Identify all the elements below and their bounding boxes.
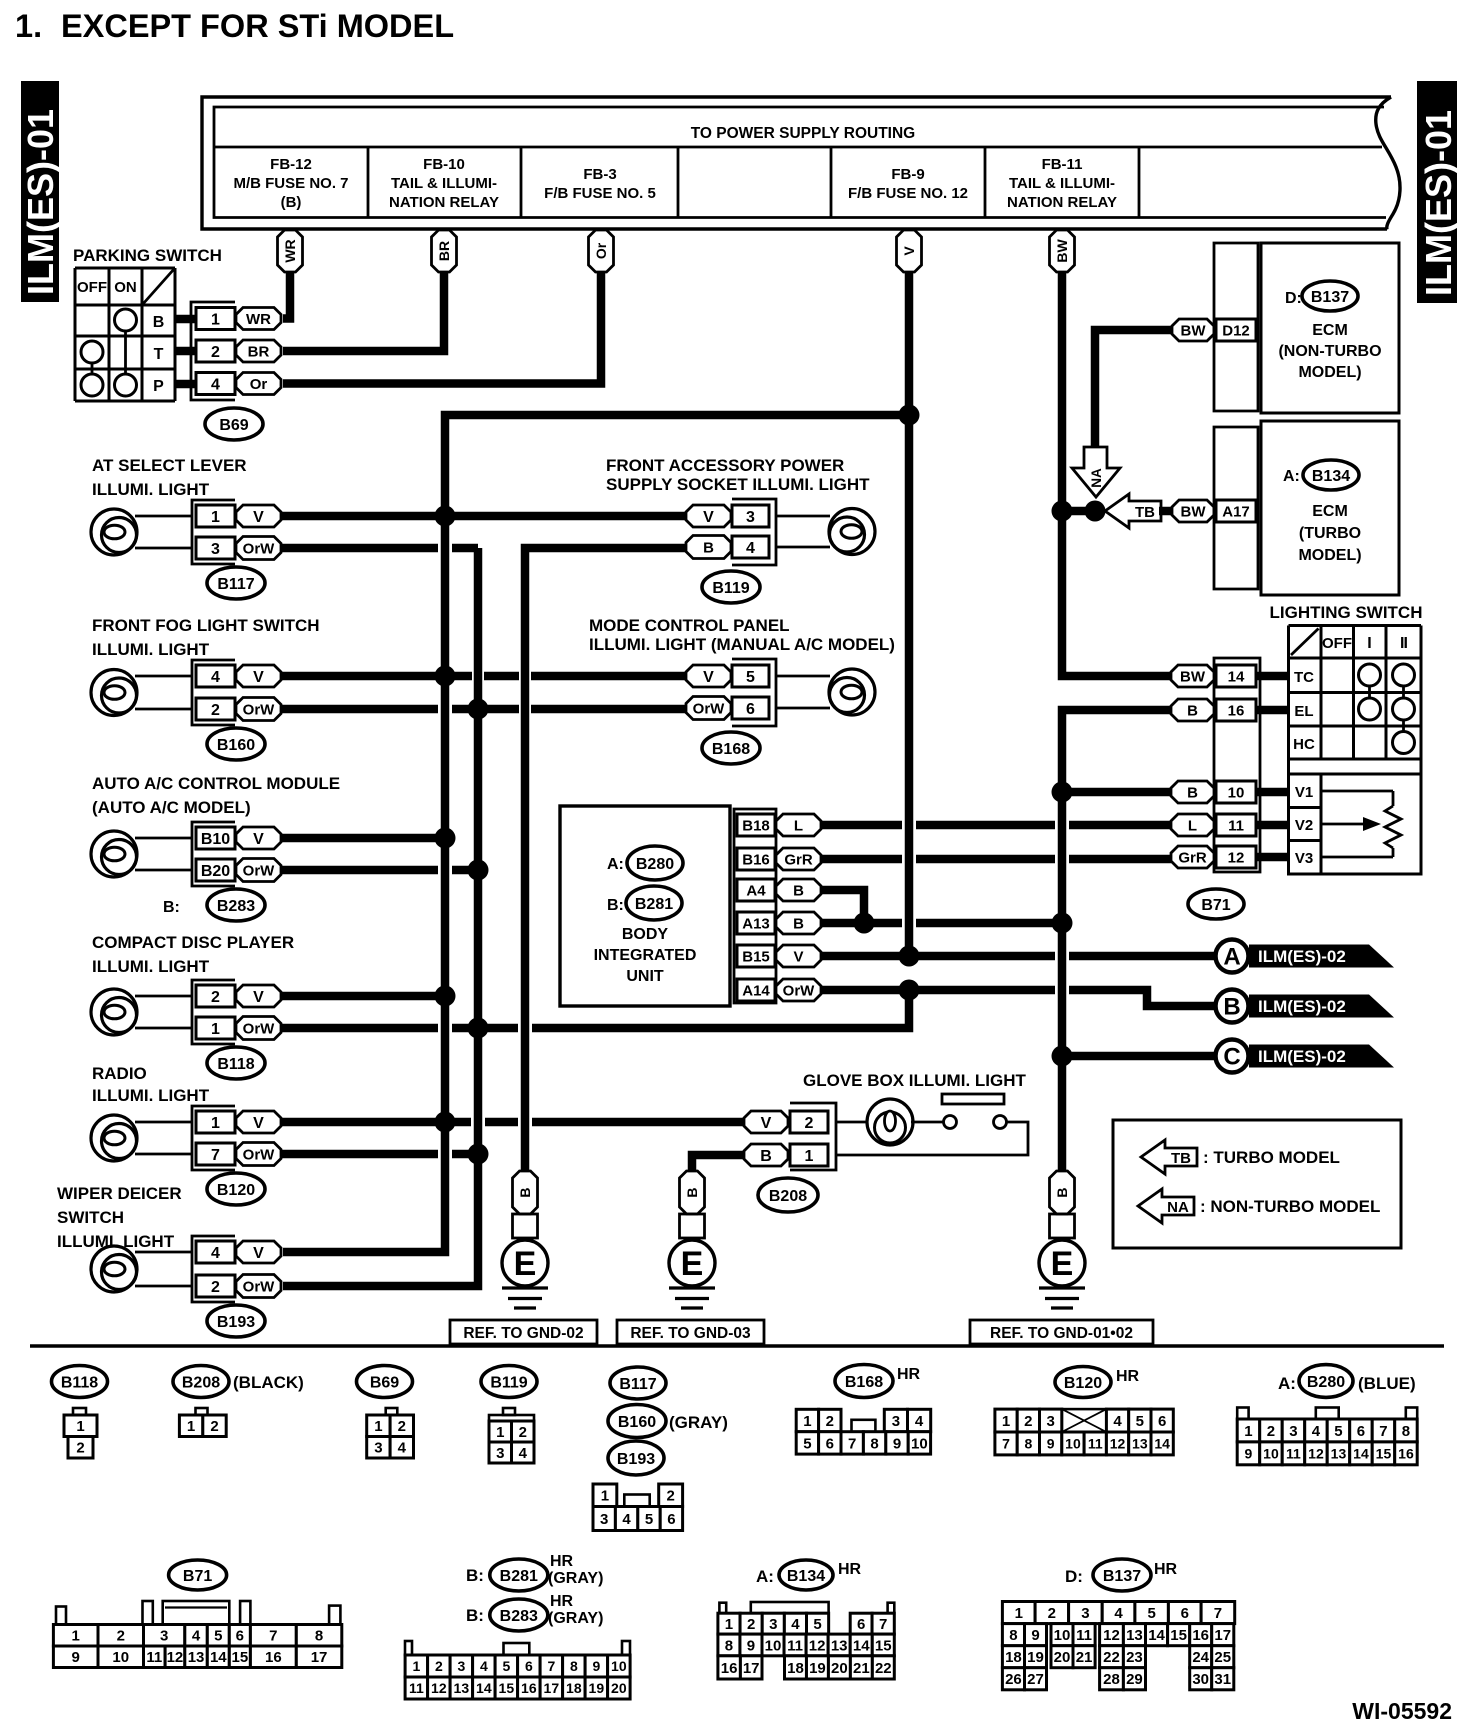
pin 2 cell of glove box: [790, 1111, 828, 1133]
pin B15 cell of BIU: [737, 945, 775, 967]
junction dot at (478,1028): [468, 1018, 489, 1039]
svg-text:ILM(ES)-02: ILM(ES)-02: [1258, 997, 1346, 1016]
svg-text:V: V: [793, 948, 803, 965]
wire label OrW at pin A14: [776, 979, 821, 1001]
svg-text:B280: B280: [636, 856, 674, 873]
connector oval B119: [702, 571, 760, 603]
svg-text:13: 13: [1126, 1627, 1143, 1644]
svg-text:1: 1: [211, 311, 220, 328]
svg-text:11: 11: [409, 1680, 424, 1696]
svg-text:COMPACT DISC PLAYER: COMPACT DISC PLAYER: [92, 933, 294, 952]
glove box connector bracket: [790, 1103, 836, 1170]
pin 2 cell of COMPACT DISC PLAYER ILLUMI. LIGHT: [196, 985, 235, 1007]
svg-text:B283: B283: [217, 898, 255, 915]
svg-text:AUTO A/C CONTROL MODULE: AUTO A/C CONTROL MODULE: [92, 774, 340, 793]
svg-text:4: 4: [519, 1445, 528, 1462]
svg-text:4: 4: [480, 1658, 488, 1674]
wire label BW at D12: [1172, 319, 1214, 341]
svg-text:5: 5: [803, 1435, 811, 1452]
connector oval B280 (bottom): [1299, 1365, 1353, 1398]
connector arrow A to ILM(ES)-02: [1216, 940, 1249, 973]
svg-text:11: 11: [1076, 1627, 1092, 1644]
svg-text:31: 31: [1214, 1671, 1231, 1688]
legend box turbo / non-turbo: [1113, 1120, 1401, 1248]
wire BR from fuse box to parking switch connector: [283, 268, 444, 351]
svg-text:4: 4: [622, 1511, 631, 1528]
stub BR under fuse box: [432, 230, 457, 272]
wire label L at pin B18: [776, 814, 821, 836]
svg-text:4: 4: [211, 1245, 220, 1262]
svg-text:11: 11: [1286, 1445, 1301, 1461]
svg-text:E: E: [514, 1245, 537, 1283]
wire stub pin 10 to lighting switch: [1256, 788, 1288, 797]
svg-text:14: 14: [853, 1637, 870, 1654]
svg-text:B: B: [760, 1148, 772, 1165]
svg-text:7: 7: [1002, 1435, 1010, 1451]
svg-text:I: I: [1367, 635, 1371, 652]
svg-text:6: 6: [1158, 1413, 1166, 1430]
svg-text:10: 10: [1263, 1445, 1279, 1461]
svg-text:WR: WR: [282, 239, 298, 262]
svg-text:B168: B168: [845, 1374, 883, 1391]
svg-text:10: 10: [1065, 1435, 1081, 1451]
connector oval B168: [702, 732, 760, 764]
svg-text:UNIT: UNIT: [626, 968, 664, 985]
svg-text:19: 19: [1027, 1649, 1044, 1666]
svg-text:22: 22: [875, 1660, 892, 1677]
svg-text:(GRAY): (GRAY): [548, 1570, 603, 1587]
TB arrow pointing left: [1105, 494, 1161, 528]
svg-text:REF. TO GND-03: REF. TO GND-03: [630, 1325, 751, 1342]
svg-text:LIGHTING SWITCH: LIGHTING SWITCH: [1270, 603, 1423, 622]
svg-text:1: 1: [211, 509, 220, 526]
svg-text:6: 6: [667, 1511, 675, 1528]
wire label B at pin A4: [776, 879, 821, 901]
svg-text:TAIL & ILLUMI-: TAIL & ILLUMI-: [391, 175, 497, 192]
NA arrow pointing down to turbo/non-turbo split: [1072, 447, 1120, 497]
stub V under fuse box: [897, 230, 922, 272]
svg-text:5: 5: [1136, 1413, 1144, 1430]
connector oval B280: [627, 846, 683, 880]
connector B69 bracket: [191, 302, 235, 400]
svg-text:1: 1: [1244, 1423, 1252, 1440]
svg-text:B:: B:: [163, 899, 180, 916]
svg-text:5: 5: [1147, 1605, 1155, 1622]
wire label B of glove box: [744, 1144, 788, 1166]
svg-text:FRONT FOG LIGHT SWITCH: FRONT FOG LIGHT SWITCH: [92, 616, 320, 635]
svg-text:B137: B137: [1103, 1568, 1141, 1585]
connector oval B117 (bottom): [610, 1367, 666, 1399]
pin A13 cell of BIU: [737, 912, 775, 934]
wire V row RADIO to GLOVE BOX: [281, 1118, 471, 1127]
svg-text:B10: B10: [201, 831, 230, 848]
svg-text:4: 4: [211, 669, 220, 686]
junction dot at (478,1154): [468, 1144, 489, 1165]
lighting switch contact grid: [1289, 624, 1422, 627]
svg-text:BW: BW: [1181, 322, 1207, 339]
svg-text:Or: Or: [250, 376, 268, 393]
connector oval B69 (bottom): [357, 1366, 413, 1398]
pin B18 cell of BIU: [737, 814, 775, 836]
pin 1 cell of B69: [196, 308, 235, 330]
svg-text:28: 28: [1103, 1671, 1120, 1688]
svg-text:16: 16: [1228, 702, 1245, 719]
svg-text:OrW: OrW: [243, 862, 276, 879]
pin 4 cell of B69: [196, 373, 235, 395]
wire label L at pin 11: [1171, 814, 1214, 836]
svg-text:4: 4: [192, 1628, 201, 1645]
svg-text:3: 3: [600, 1511, 608, 1528]
stub WR under fuse box: [278, 230, 303, 272]
link line OFF column: [91, 363, 94, 374]
connector oval B208: [758, 1178, 818, 1212]
svg-text:HR: HR: [1154, 1561, 1178, 1578]
svg-text:HR: HR: [897, 1366, 921, 1383]
wire OrW row FRONT FOG to MODE CONTROL: [281, 705, 438, 714]
svg-text:1: 1: [211, 1021, 220, 1038]
svg-text:B134: B134: [1312, 468, 1350, 485]
svg-text:B134: B134: [787, 1568, 825, 1585]
svg-text:3: 3: [1289, 1423, 1297, 1440]
pin 7 cell of RADIO ILLUMI. LIGHT: [196, 1143, 235, 1165]
wire color label OrW of WIPER DEICER SWITCH ILLUMI. LIGHT: [236, 1275, 281, 1298]
svg-text:(AUTO A/C MODEL): (AUTO A/C MODEL): [92, 798, 251, 817]
svg-text:OrW: OrW: [243, 540, 276, 557]
junction dot at (478,709): [468, 699, 489, 720]
pin 4 cell of FRONT ACCESSORY POWER SUPPLY SOCKET ILLUMI. LIGHT: [732, 536, 769, 558]
svg-text:B208: B208: [769, 1188, 807, 1205]
svg-text:OrW: OrW: [243, 701, 276, 718]
wire label WR of B69: [236, 308, 281, 330]
REF. TO GND-01/02 box: [970, 1320, 1153, 1344]
svg-text:7: 7: [211, 1147, 220, 1164]
wire parking switch P to pin 4: [175, 380, 198, 389]
svg-text:11: 11: [1088, 1435, 1103, 1451]
svg-text:A:: A:: [1278, 1374, 1296, 1393]
svg-text:B18: B18: [742, 817, 770, 834]
svg-text:15: 15: [1170, 1627, 1187, 1644]
svg-text:A:: A:: [756, 1567, 774, 1586]
connector bracket of MODE CONTROL PANEL ILLUMI. LIGHT: [732, 659, 776, 726]
wire stub pin 16 to lighting switch: [1256, 706, 1288, 715]
connector oval B71 (bottom): [169, 1560, 227, 1590]
connector bracket of FRONT ACCESSORY POWER SUPPLY SOCKET ILLUMI. LIGHT: [732, 499, 776, 565]
connector oval B168 (bottom): [835, 1365, 893, 1398]
connector pinout B119: [503, 1408, 515, 1415]
svg-text:7: 7: [879, 1616, 887, 1633]
svg-text:GLOVE BOX ILLUMI. LIGHT: GLOVE BOX ILLUMI. LIGHT: [803, 1071, 1027, 1090]
svg-text:2: 2: [519, 1424, 527, 1441]
svg-text:19: 19: [809, 1660, 826, 1677]
svg-text:B69: B69: [219, 417, 248, 434]
svg-text:8: 8: [315, 1628, 323, 1645]
svg-text:7: 7: [848, 1435, 856, 1452]
svg-text:REF. TO GND-01•02: REF. TO GND-01•02: [990, 1325, 1133, 1342]
svg-text:ILM(ES)-01: ILM(ES)-01: [1418, 110, 1459, 296]
svg-text:2: 2: [211, 344, 220, 361]
svg-text:16: 16: [521, 1680, 537, 1696]
pin 11 cell of B71: [1216, 814, 1256, 836]
svg-text:V: V: [901, 246, 917, 256]
wire B16 row to ground trunk: [1062, 710, 1171, 1171]
legend NA arrow: [1138, 1189, 1194, 1223]
glove box switch: [911, 1121, 943, 1124]
lamp of AT SELECT LEVER ILLUMI. LIGHT: [91, 509, 137, 555]
wire color label B of FRONT ACCESSORY POWER SUPPLY SOCKET ILLUMI. LIGHT: [686, 536, 731, 559]
svg-text:17: 17: [544, 1680, 560, 1696]
svg-text:(BLACK): (BLACK): [233, 1373, 304, 1392]
svg-text:2: 2: [210, 1418, 218, 1435]
svg-text:V: V: [253, 831, 264, 848]
right banner ILM(ES)-01: [1417, 81, 1457, 303]
svg-text:4: 4: [398, 1440, 407, 1457]
svg-text:B16: B16: [742, 851, 770, 868]
svg-text:P: P: [153, 378, 164, 395]
svg-text:TAIL & ILLUMI-: TAIL & ILLUMI-: [1009, 175, 1115, 192]
svg-text:16: 16: [721, 1660, 738, 1677]
svg-text:8: 8: [1024, 1435, 1032, 1451]
left banner ILM(ES)-01: [21, 81, 59, 302]
svg-text:: NON-TURBO MODEL: : NON-TURBO MODEL: [1200, 1197, 1380, 1216]
connector bracket of COMPACT DISC PLAYER ILLUMI. LIGHT: [192, 980, 235, 1044]
svg-text:B69: B69: [370, 1374, 399, 1391]
connector pinout B208: [196, 1408, 208, 1415]
junction dot at (1062,792): [1052, 782, 1073, 803]
svg-text:(B): (B): [281, 194, 302, 211]
svg-text:B: B: [517, 1187, 533, 1197]
wire OrW from AT SELECT pin 3 to OrW trunk: [281, 544, 438, 553]
connector oval B160 (bottom): [608, 1405, 666, 1438]
svg-text:A: A: [1223, 944, 1240, 971]
connector oval B134 of ECM turbo: [1303, 460, 1359, 490]
wire V trunk from fuse box down to node B15: [905, 268, 914, 956]
svg-text:3: 3: [374, 1440, 382, 1457]
svg-text:12: 12: [809, 1637, 826, 1654]
junction dot at (1095,511): [1085, 501, 1106, 522]
svg-text:15: 15: [499, 1680, 515, 1696]
parking switch contact circle P-ON: [115, 374, 137, 396]
lighting switch contact circle at (1369.5,675): [1359, 664, 1381, 686]
svg-text:ILM(ES)-02: ILM(ES)-02: [1258, 947, 1346, 966]
svg-text:(GRAY): (GRAY): [669, 1413, 728, 1432]
connector oval B134 (bottom): [779, 1560, 833, 1590]
svg-text:B160: B160: [618, 1414, 656, 1431]
wire V of AUTO A/C CONTROL MODULE: [281, 834, 445, 843]
svg-text:9: 9: [1031, 1627, 1039, 1644]
pin 3 cell of AT SELECT LEVER ILLUMI. LIGHT: [196, 537, 235, 559]
svg-text:B193: B193: [617, 1451, 655, 1468]
svg-text:EXCEPT FOR STi MODEL: EXCEPT FOR STi MODEL: [61, 8, 454, 44]
wire OrW row A14 to arrow B: [820, 986, 1055, 995]
legend TB arrow: [1141, 1140, 1197, 1174]
svg-text:NA: NA: [1167, 1199, 1189, 1216]
svg-text:2: 2: [211, 1279, 220, 1296]
svg-text:V: V: [253, 509, 264, 526]
connector B71 bracket: [1214, 658, 1260, 872]
connector oval B193 (bottom): [608, 1441, 664, 1475]
wire link between BW trunk and TB arrow node: [1062, 507, 1095, 516]
wire parking switch B to pin 1: [175, 315, 198, 324]
connector bracket of AUTO A/C CONTROL MODULE: [192, 822, 235, 886]
svg-text:(TURBO: (TURBO: [1299, 525, 1361, 542]
svg-text:L: L: [1188, 817, 1197, 834]
svg-text:25: 25: [1214, 1649, 1231, 1666]
wire V row AT SELECT to FRONT ACCESSORY: [281, 512, 686, 521]
svg-text:MODEL): MODEL): [1298, 547, 1361, 564]
junction dot at (909,956): [899, 946, 920, 967]
svg-text:RADIO: RADIO: [92, 1064, 147, 1083]
svg-text:14: 14: [1228, 668, 1245, 685]
ground GND-03: B stub, E circle and earth symbol: [680, 1171, 705, 1214]
wire B row A13 to ground trunk: [820, 919, 902, 928]
svg-text:6: 6: [857, 1616, 865, 1633]
svg-text:WI-05592: WI-05592: [1352, 1698, 1452, 1724]
junction dot at (1062,923): [1052, 913, 1073, 934]
wire label GrR at pin 12: [1171, 846, 1214, 868]
ECM (TURBO MODEL) box: [1261, 421, 1399, 595]
svg-text:ILLUMI. LIGHT: ILLUMI. LIGHT: [92, 957, 210, 976]
svg-text:REF. TO GND-02: REF. TO GND-02: [463, 1325, 583, 1342]
svg-text:10: 10: [112, 1649, 129, 1666]
svg-text:12: 12: [167, 1649, 184, 1666]
svg-text:BW: BW: [1054, 239, 1070, 263]
svg-text:C: C: [1223, 1044, 1240, 1071]
svg-text:Or: Or: [593, 242, 609, 259]
pin 1 cell of COMPACT DISC PLAYER ILLUMI. LIGHT: [196, 1017, 235, 1039]
svg-text:F/B FUSE NO. 12: F/B FUSE NO. 12: [848, 185, 968, 202]
svg-text:24: 24: [1192, 1649, 1209, 1666]
svg-text:1: 1: [805, 1148, 814, 1165]
pin A14 cell of BIU: [737, 979, 775, 1001]
ECM non-turbo connector bracket: [1214, 243, 1258, 411]
svg-text:V1: V1: [1295, 784, 1313, 801]
connector oval B118: [207, 1047, 265, 1079]
wire color label OrW of AUTO A/C CONTROL MODULE: [236, 859, 281, 882]
svg-text:V: V: [253, 989, 264, 1006]
lamp of FRONT FOG LIGHT SWITCH ILLUMI. LIGHT: [91, 670, 137, 716]
junction dot at (445,838): [435, 828, 456, 849]
svg-text:4: 4: [915, 1413, 924, 1430]
svg-text:15: 15: [1376, 1445, 1392, 1461]
power supply routing box outer frame with torn right edge: [202, 97, 1391, 229]
svg-text:4: 4: [211, 376, 220, 393]
wire label BW at pin 14: [1171, 665, 1214, 687]
pin 16 cell of B71: [1216, 699, 1256, 721]
svg-text:9: 9: [1047, 1435, 1055, 1451]
svg-text:B71: B71: [1201, 897, 1230, 914]
junction dot at (445,676): [435, 666, 456, 687]
connector oval B283 (bottom): [490, 1599, 548, 1631]
connector oval B69: [205, 408, 263, 440]
wire color label V of RADIO ILLUMI. LIGHT: [236, 1111, 281, 1133]
svg-text:B281: B281: [500, 1568, 538, 1585]
pin 4 cell of WIPER DEICER SWITCH ILLUMI. LIGHT: [196, 1241, 235, 1263]
junction dot at (864,923): [854, 913, 875, 934]
ECM turbo connector bracket: [1214, 427, 1258, 589]
svg-text:B160: B160: [217, 737, 255, 754]
wire V row FRONT FOG to MODE CONTROL: [281, 672, 472, 681]
svg-text:ON: ON: [114, 279, 137, 296]
wire L row B18 to pin 11: [820, 821, 902, 830]
svg-text:12: 12: [431, 1680, 447, 1696]
lamp of AUTO A/C CONTROL MODULE: [91, 831, 137, 877]
svg-text:4: 4: [791, 1616, 800, 1633]
svg-text:3: 3: [211, 541, 220, 558]
wire color label OrW of FRONT FOG LIGHT SWITCH ILLUMI. LIGHT: [236, 698, 281, 721]
svg-text:FB-10: FB-10: [423, 156, 465, 173]
svg-text:B193: B193: [217, 1314, 255, 1331]
svg-text:18: 18: [787, 1660, 804, 1677]
svg-text:V: V: [703, 509, 714, 526]
wire label BW at A17: [1172, 500, 1214, 522]
rheostat resistor and wiper arrow: [1321, 790, 1393, 793]
svg-text:B:: B:: [466, 1606, 484, 1625]
svg-text:14: 14: [476, 1680, 492, 1696]
ground GND-01-02: B stub, E circle and earth symbol: [1050, 1171, 1075, 1214]
connector pinout B71: [53, 1625, 98, 1647]
svg-text:B: B: [1187, 784, 1198, 801]
svg-text:2: 2: [1048, 1605, 1056, 1622]
svg-text:B280: B280: [1307, 1374, 1345, 1391]
svg-text:23: 23: [1126, 1649, 1143, 1666]
connector oval B71: [1188, 889, 1244, 919]
svg-text:5: 5: [502, 1658, 510, 1674]
svg-text:3: 3: [457, 1658, 465, 1674]
svg-text:1: 1: [496, 1424, 504, 1441]
svg-text:ILM(ES)-02: ILM(ES)-02: [1258, 1047, 1346, 1066]
svg-text:WIPER DEICER: WIPER DEICER: [57, 1184, 182, 1203]
svg-text:2: 2: [211, 702, 220, 719]
svg-text:NATION RELAY: NATION RELAY: [389, 194, 499, 211]
svg-text:3: 3: [769, 1616, 777, 1633]
wire stub pin 12 to lighting switch: [1256, 853, 1288, 862]
parking switch contact circle T-OFF: [81, 341, 103, 363]
svg-text:B71: B71: [183, 1568, 212, 1585]
svg-text:1: 1: [803, 1413, 811, 1430]
svg-text:13: 13: [188, 1649, 205, 1666]
svg-text:5: 5: [214, 1628, 222, 1645]
pin 2 cell of FRONT FOG LIGHT SWITCH ILLUMI. LIGHT: [196, 698, 235, 720]
svg-text:12: 12: [1308, 1445, 1324, 1461]
junction dot at (445,516): [435, 506, 456, 527]
svg-text:16: 16: [265, 1649, 282, 1666]
connector oval B193: [207, 1305, 265, 1337]
svg-text:HR: HR: [550, 1593, 574, 1610]
wire OrW of RADIO to OrW trunk: [281, 1150, 438, 1159]
wire color label OrW of AT SELECT LEVER ILLUMI. LIGHT: [236, 537, 281, 560]
svg-text:3: 3: [1046, 1413, 1054, 1430]
wire color label V of FRONT ACCESSORY POWER SUPPLY SOCKET ILLUMI. LIGHT: [686, 505, 731, 527]
connector pinout B137: [1002, 1602, 1035, 1624]
stub BW under fuse box: [1050, 230, 1075, 272]
svg-text:11: 11: [146, 1649, 162, 1666]
connector bracket of FRONT FOG LIGHT SWITCH ILLUMI. LIGHT: [192, 660, 235, 725]
ECM (NON-TURBO MODEL) box: [1261, 243, 1399, 413]
connector oval B120: [207, 1173, 265, 1205]
svg-text:BODY: BODY: [622, 926, 669, 943]
wire B of GLOVE BOX to ground GND-03: [692, 1155, 744, 1171]
svg-text:B:: B:: [466, 1566, 484, 1585]
svg-text:2: 2: [211, 989, 220, 1006]
lamp of FRONT ACCESSORY POWER SUPPLY SOCKET ILLUMI. LIGHT: [776, 515, 830, 518]
svg-text:2: 2: [666, 1488, 674, 1505]
svg-text:FRONT ACCESSORY POWER: FRONT ACCESSORY POWER: [606, 456, 844, 475]
lamp of WIPER DEICER SWITCH ILLUMI. LIGHT: [91, 1246, 137, 1292]
connector pinout B120: [995, 1409, 1017, 1432]
svg-text:BR: BR: [248, 343, 270, 360]
svg-text:B119: B119: [712, 580, 749, 597]
junction dot at (445,1122): [435, 1112, 456, 1133]
